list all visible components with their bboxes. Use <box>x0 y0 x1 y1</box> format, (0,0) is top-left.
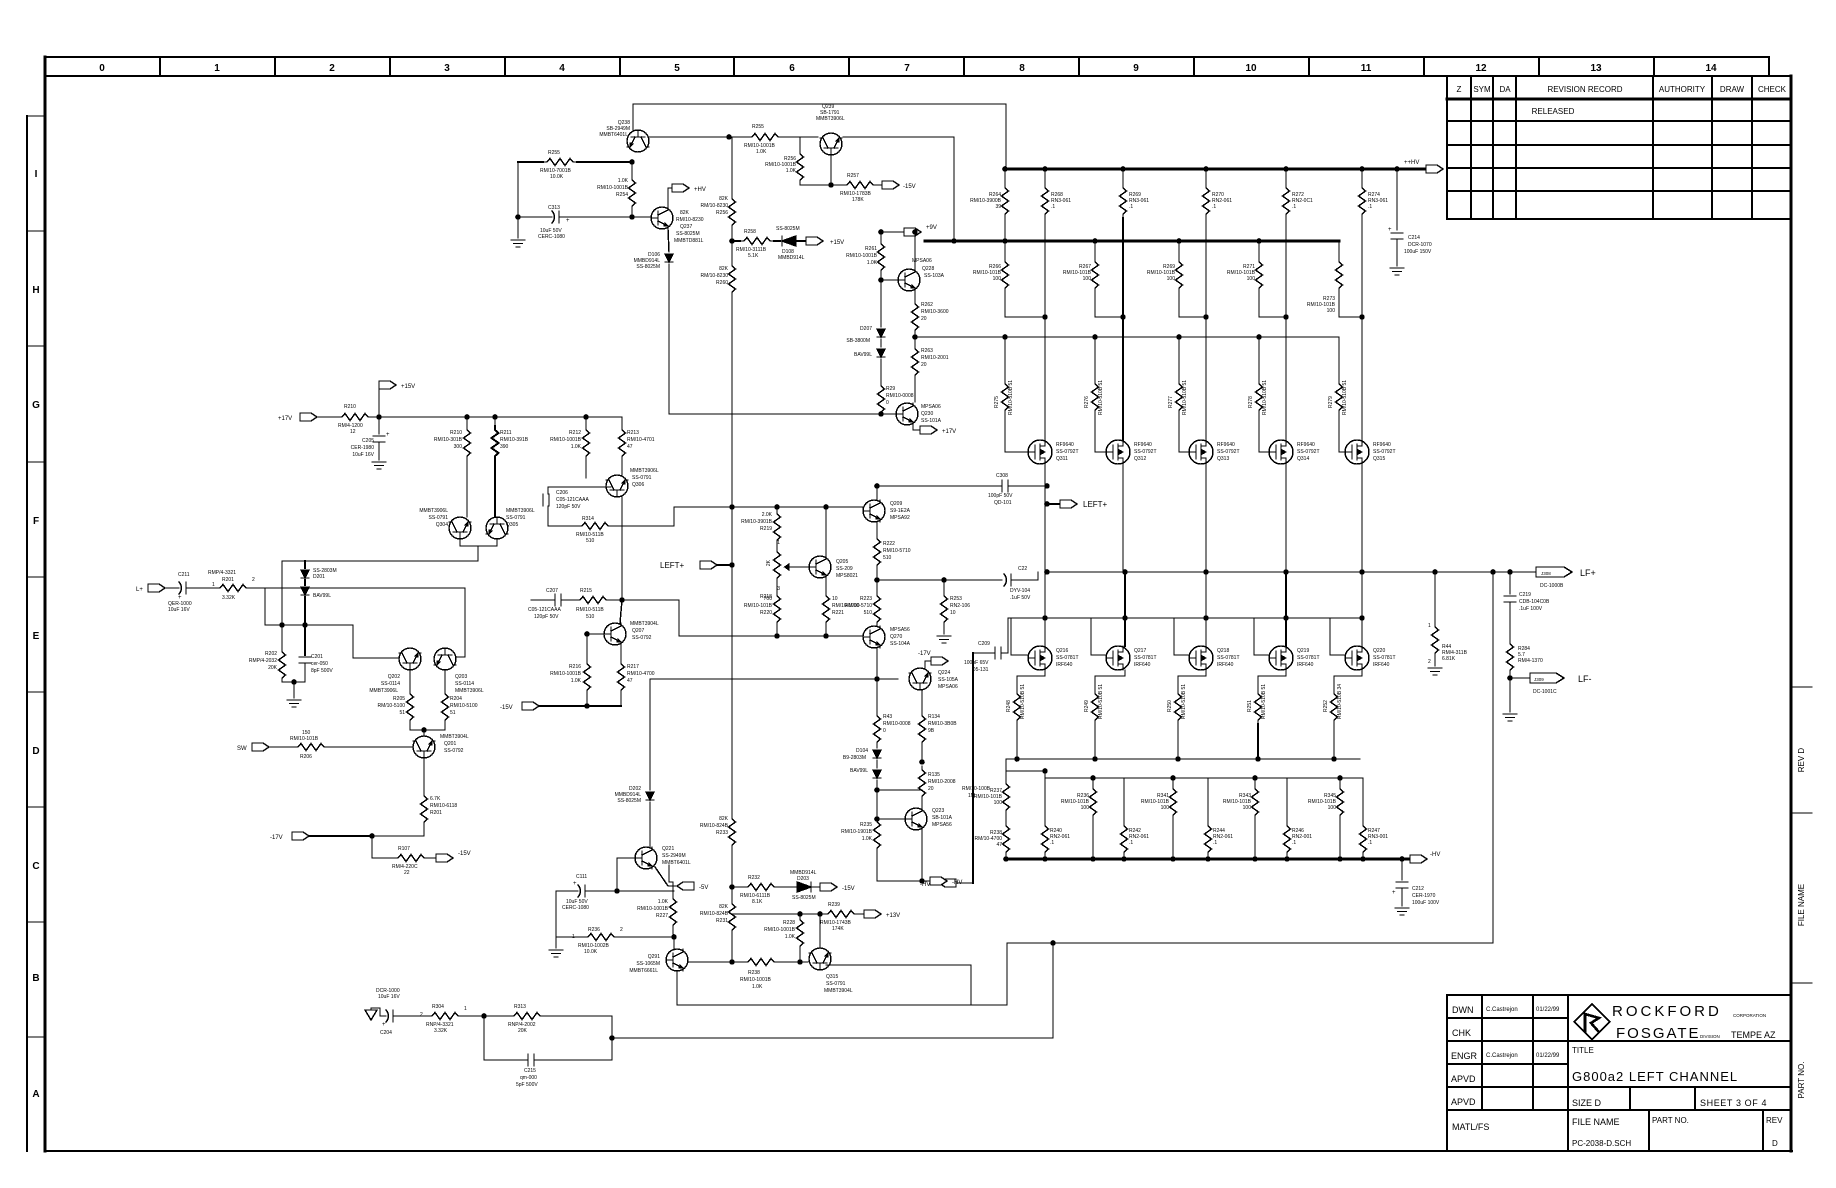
capacitor C207 + resistor R215 <box>531 599 555 601</box>
svg-text:R232: R232 <box>748 875 760 881</box>
svg-text:20: 20 <box>921 316 927 322</box>
connector +9V <box>881 231 904 233</box>
svg-text:RM/10-1001B: RM/10-1001B <box>550 437 582 443</box>
svg-text:+: + <box>386 432 390 438</box>
svg-text:01/22/99: 01/22/99 <box>1536 1007 1560 1013</box>
Rockford Fosgate logo <box>1574 1004 1609 1039</box>
svg-text:C.Castrejon: C.Castrejon <box>1486 1007 1518 1013</box>
svg-text:SB-101A: SB-101A <box>932 815 953 821</box>
svg-text:R257: R257 <box>847 173 859 179</box>
svg-text:RM/10-824B: RM/10-824B <box>700 823 729 829</box>
svg-text:C308: C308 <box>996 473 1008 479</box>
svg-text:3: 3 <box>444 63 450 74</box>
svg-text:RM/10-1901B: RM/10-1901B <box>841 829 873 835</box>
svg-text:IRF640: IRF640 <box>1297 662 1314 668</box>
resistor R255b column <box>731 137 733 195</box>
ground (C205) <box>372 462 386 469</box>
svg-text:LEFT+: LEFT+ <box>660 561 685 570</box>
svg-text:qm-000: qm-000 <box>520 1075 537 1081</box>
svg-text:RM/10-100B: RM/10-100B <box>962 786 991 792</box>
wire Q239 collector to mid bus <box>843 137 954 241</box>
svg-text:CERC-1080: CERC-1080 <box>562 905 589 911</box>
svg-text:C215: C215 <box>524 1068 536 1074</box>
svg-text:SIZE D: SIZE D <box>1572 1098 1602 1108</box>
svg-text:1: 1 <box>572 934 575 940</box>
svg-text:B: B <box>32 973 39 984</box>
svg-text:10.0K: 10.0K <box>550 174 564 180</box>
transistor Q209 <box>863 500 885 522</box>
wire gate bus bottom <box>1008 617 1341 619</box>
connector -5V (Q221) <box>655 867 677 886</box>
transistor Q201 <box>423 730 425 736</box>
resistor R212 <box>585 417 587 426</box>
resistor R134 <box>921 690 923 712</box>
wire Q315 collector up <box>819 932 821 948</box>
resistor R268 <box>1044 169 1046 184</box>
svg-text:I: I <box>35 169 38 180</box>
svg-text:0: 0 <box>99 63 105 74</box>
svg-text:ROCKFORD: ROCKFORD <box>1612 1003 1722 1020</box>
svg-text:2: 2 <box>1428 659 1431 665</box>
svg-text:12: 12 <box>1475 63 1487 74</box>
svg-text:10uF 16V: 10uF 16V <box>168 607 190 613</box>
svg-text:RM/10-3901B: RM/10-3901B <box>741 519 773 525</box>
capacitor C204 <box>371 1007 380 1009</box>
svg-text:Q291: Q291 <box>648 954 660 960</box>
svg-text:R254: R254 <box>616 192 628 198</box>
svg-text:MMBT6401L: MMBT6401L <box>599 132 628 138</box>
svg-text:MPSA92: MPSA92 <box>890 515 910 521</box>
svg-text:Q306: Q306 <box>632 482 644 488</box>
svg-text:RM/10-1001B: RM/10-1001B <box>764 927 796 933</box>
wire x881 down through D207 <box>880 280 882 327</box>
wire gate bus top <box>916 336 1339 338</box>
wire -HV bus bottom <box>1006 858 1410 861</box>
svg-text:AUTHORITY: AUTHORITY <box>1659 85 1706 94</box>
resistor R201b below Q201 <box>423 758 425 792</box>
svg-text:11: 11 <box>1361 63 1372 74</box>
ground (C313) <box>517 217 519 238</box>
wire Q221 base jog <box>617 858 635 891</box>
svg-text:cer-050: cer-050 <box>311 661 328 667</box>
svg-text:L+: L+ <box>136 587 143 593</box>
svg-text:SS-8025M: SS-8025M <box>676 231 700 237</box>
svg-text:R220: R220 <box>760 610 772 616</box>
svg-text:MPSA06: MPSA06 <box>921 404 941 410</box>
wire Q270 base feed <box>622 600 863 636</box>
transistor Q207 <box>604 623 626 645</box>
svg-text:82K: 82K <box>719 266 729 272</box>
svg-text:4: 4 <box>559 63 565 74</box>
svg-text:F: F <box>33 516 39 527</box>
svg-text:100: 100 <box>1327 308 1336 314</box>
svg-text:SS-0792T: SS-0792T <box>1056 449 1079 455</box>
svg-text:Q305: Q305 <box>506 522 518 528</box>
svg-text:G: G <box>32 400 40 411</box>
svg-text:SS-2949M: SS-2949M <box>662 853 686 859</box>
connector +15V <box>378 385 380 417</box>
svg-text:R212: R212 <box>569 430 581 436</box>
resistor R43 <box>876 690 878 712</box>
svg-text:H: H <box>32 285 39 296</box>
ground (input) <box>287 700 301 707</box>
transistor Q230 <box>896 403 918 425</box>
svg-text:R213: R213 <box>627 430 639 436</box>
diode D201 pair <box>304 561 306 568</box>
svg-text:+13V: +13V <box>886 913 900 919</box>
resistor R279 <box>1338 337 1340 380</box>
svg-text:1: 1 <box>214 63 220 74</box>
svg-text:RMP/4-2032: RMP/4-2032 <box>249 658 277 664</box>
resistor R210 <box>338 414 372 421</box>
svg-text:R253: R253 <box>950 596 962 602</box>
svg-text:20: 20 <box>928 786 934 792</box>
svg-text:FOSGATE: FOSGATE <box>1616 1025 1701 1042</box>
svg-text:1.0K: 1.0K <box>785 934 796 940</box>
svg-text:SS-0791: SS-0791 <box>429 515 449 521</box>
svg-text:SS-105A: SS-105A <box>938 677 959 683</box>
svg-text:C204: C204 <box>380 1030 392 1036</box>
wire y580 to C22 <box>877 579 1002 581</box>
svg-text:100: 100 <box>1243 805 1252 811</box>
svg-text:RM/10-5710: RM/10-5710 <box>883 548 911 554</box>
svg-text:1.0K: 1.0K <box>867 260 878 266</box>
wire output rail LF+ <box>1047 571 1510 573</box>
svg-text:Q311: Q311 <box>1056 456 1068 462</box>
wire top loop <box>633 104 1006 169</box>
resistor R313 <box>484 1015 510 1017</box>
svg-text:R255: R255 <box>752 124 764 130</box>
resistor R266 <box>1004 241 1006 258</box>
svg-text:J308: J308 <box>1541 571 1551 576</box>
svg-text:SS-103A: SS-103A <box>924 273 945 279</box>
resistor R233 <box>729 815 736 849</box>
wire FET source columns to output rail <box>1044 464 1046 572</box>
ground (R253) <box>937 636 951 643</box>
svg-text:RM/10-1001B: RM/10-1001B <box>740 977 772 983</box>
svg-text:.1uF 100V: .1uF 100V <box>1519 606 1543 612</box>
svg-text:D203: D203 <box>797 876 809 882</box>
svg-text:-17V: -17V <box>918 651 931 657</box>
svg-text:R279: R279 <box>1328 396 1334 408</box>
svg-text:J309: J309 <box>1534 677 1544 682</box>
svg-text:MMBT3906L: MMBT3906L <box>630 468 659 474</box>
svg-text:SHEET 3 OF 4: SHEET 3 OF 4 <box>1700 1098 1767 1108</box>
svg-text:SW: SW <box>237 746 247 752</box>
svg-text:R222: R222 <box>883 541 895 547</box>
svg-text:RM/10-510B 51: RM/10-510B 51 <box>1261 684 1267 719</box>
svg-text:120pF 50V: 120pF 50V <box>556 504 581 510</box>
svg-text:6: 6 <box>789 63 795 74</box>
svg-text:R278: R278 <box>1248 396 1254 408</box>
svg-text:RM/10-511B: RM/10-511B <box>576 607 604 613</box>
svg-text:SS-209: SS-209 <box>836 566 853 572</box>
wire y487 <box>548 486 611 488</box>
svg-text:.1: .1 <box>1368 840 1372 846</box>
svg-text:SS-0792T: SS-0792T <box>1373 449 1396 455</box>
svg-text:C05-121CAAA: C05-121CAAA <box>528 607 561 613</box>
wire Q239 emitter <box>830 155 832 185</box>
svg-text:9B: 9B <box>928 728 935 734</box>
svg-text:R239: R239 <box>828 902 840 908</box>
svg-text:CHK: CHK <box>1452 1028 1471 1038</box>
wire lattice top rails <box>1005 759 1007 780</box>
connector LEFT+ output <box>1044 501 1050 507</box>
svg-text:.1: .1 <box>1292 840 1296 846</box>
resistor R239 to +13V <box>824 911 858 918</box>
svg-text:-5V: -5V <box>699 885 708 891</box>
svg-text:20K: 20K <box>268 665 278 671</box>
resistor R254 <box>631 162 633 176</box>
svg-text:1.0K: 1.0K <box>756 149 767 155</box>
svg-text:CERC-1080: CERC-1080 <box>538 234 565 240</box>
connector +17V (Q230) <box>913 425 920 430</box>
transistor Q228 <box>881 279 898 281</box>
wire y414 <box>669 413 896 415</box>
svg-text:100pF 65V: 100pF 65V <box>964 660 989 666</box>
svg-text:.1: .1 <box>1129 840 1133 846</box>
svg-text:.1: .1 <box>1368 204 1372 210</box>
resistor R227 <box>668 865 670 882</box>
svg-text:6.81K: 6.81K <box>1442 656 1456 662</box>
capacitor C209 <box>973 652 995 654</box>
svg-text:R250: R250 <box>1167 700 1173 712</box>
resistor R277 <box>1178 337 1180 380</box>
resistor R259 <box>748 134 782 141</box>
svg-text:1: 1 <box>212 582 215 588</box>
svg-text:Q209: Q209 <box>890 501 902 507</box>
svg-text:DIVISION: DIVISION <box>1700 1034 1720 1039</box>
svg-text:1.0K: 1.0K <box>862 836 873 842</box>
transistor Q238 <box>627 130 649 152</box>
resistor R269 <box>1122 169 1124 184</box>
svg-text:.1: .1 <box>1050 840 1054 846</box>
resistor R202 <box>281 625 283 648</box>
resistor R238 <box>744 959 778 966</box>
svg-text:C205: C205 <box>362 438 374 444</box>
resistor R271 <box>1258 241 1260 258</box>
svg-text:8: 8 <box>1019 63 1025 74</box>
resistor R264 <box>1004 169 1006 184</box>
svg-text:R255: R255 <box>548 150 560 156</box>
svg-text:RM/10-8230: RM/10-8230 <box>676 217 704 223</box>
svg-text:C313: C313 <box>548 205 560 211</box>
wire / ground C219 leg <box>1509 678 1511 712</box>
svg-text:R107: R107 <box>398 846 410 852</box>
svg-text:RM/10-301B: RM/10-301B <box>434 437 463 443</box>
svg-text:Q220: Q220 <box>1373 648 1385 654</box>
wire Q291 emitter row <box>688 961 744 963</box>
svg-text:Q202: Q202 <box>388 674 400 680</box>
svg-text:RM/10-510B 51: RM/10-510B 51 <box>1098 684 1104 719</box>
svg-text:9: 9 <box>1133 63 1139 74</box>
svg-text:39: 39 <box>995 204 1001 210</box>
capacitor C313 <box>517 162 519 217</box>
svg-text:FILE NAME: FILE NAME <box>1797 884 1806 926</box>
transistor Q217 with gate jog <box>1122 615 1128 621</box>
svg-text:SS-0792T: SS-0792T <box>1217 449 1240 455</box>
resistor R276 <box>1094 337 1096 380</box>
resistor R242 <box>1123 778 1125 822</box>
resistor R210b <box>466 417 468 426</box>
svg-text:RF9640: RF9640 <box>1297 442 1315 448</box>
capacitor C201 <box>304 625 306 655</box>
resistor R211 <box>494 417 496 426</box>
resistor R240 <box>1042 822 1049 856</box>
svg-text:+17V: +17V <box>942 429 956 435</box>
svg-text:510: 510 <box>864 610 873 616</box>
svg-text:REV: REV <box>1766 1116 1783 1125</box>
capacitor C308 <box>877 485 1002 487</box>
resistor R257 <box>843 182 877 189</box>
svg-text:47: 47 <box>627 444 633 450</box>
transistor Q313 <box>1189 440 1213 464</box>
capacitor C211 <box>179 582 186 594</box>
svg-text:DC-1000B: DC-1000B <box>1540 583 1564 589</box>
svg-text:20K: 20K <box>518 1028 528 1034</box>
capacitor C206 <box>543 494 549 506</box>
svg-text:510: 510 <box>883 555 892 561</box>
svg-text:RM/10-5100: RM/10-5100 <box>450 703 478 709</box>
svg-text:QD-101: QD-101 <box>994 500 1012 506</box>
svg-text:Q237: Q237 <box>680 224 692 230</box>
svg-text:DCR-1000: DCR-1000 <box>376 988 400 994</box>
svg-text:RM/10-3B0B: RM/10-3B0B <box>928 721 957 727</box>
svg-text:390: 390 <box>500 444 509 450</box>
svg-text:1.0K: 1.0K <box>752 984 763 990</box>
svg-text:RM/4-1370: RM/4-1370 <box>1518 658 1543 664</box>
svg-text:C: C <box>32 861 39 872</box>
svg-text:1: 1 <box>464 1006 467 1012</box>
transistor Q315 <box>1345 440 1369 464</box>
svg-text:0: 0 <box>886 400 889 406</box>
resistor R213 <box>621 417 623 426</box>
svg-text:MMBT3904L: MMBT3904L <box>824 988 853 994</box>
ground (R236) <box>555 937 557 948</box>
svg-text:+: + <box>1392 890 1396 896</box>
svg-text:300: 300 <box>454 444 463 450</box>
svg-text:-15V: -15V <box>458 851 471 857</box>
diode D202 <box>646 792 654 800</box>
svg-text:SS-0781T: SS-0781T <box>1373 655 1396 661</box>
svg-text:22: 22 <box>404 870 410 876</box>
svg-text:SS-0792T: SS-0792T <box>1134 449 1157 455</box>
svg-text:D201: D201 <box>313 574 325 580</box>
svg-text:178K: 178K <box>852 197 864 203</box>
wire Q205 collector up <box>825 507 827 556</box>
svg-text:SS-0792: SS-0792 <box>444 748 464 754</box>
svg-text:R206: R206 <box>300 754 312 760</box>
svg-text:REV D: REV D <box>1797 748 1806 773</box>
svg-text:100: 100 <box>1083 276 1092 282</box>
svg-text:Q314: Q314 <box>1297 456 1309 462</box>
resistor R29 <box>878 382 885 416</box>
svg-text:MPSA06: MPSA06 <box>938 684 958 690</box>
resistor R223 <box>876 580 878 592</box>
svg-text:C206: C206 <box>556 490 568 496</box>
svg-text:S9-1E2A: S9-1E2A <box>890 508 911 514</box>
svg-text:+: + <box>573 881 577 887</box>
svg-text:CER-1980: CER-1980 <box>351 445 375 451</box>
svg-text:MMBT3906L: MMBT3906L <box>816 116 845 122</box>
svg-text:CDB-104C0B: CDB-104C0B <box>1519 599 1550 605</box>
svg-text:R204: R204 <box>450 696 462 702</box>
svg-text:Q312: Q312 <box>1134 456 1146 462</box>
svg-text:R211: R211 <box>500 430 512 436</box>
svg-text:+: + <box>382 1022 386 1028</box>
resistor R256 <box>799 137 801 150</box>
left ruler band <box>26 116 28 1151</box>
resistor R219 <box>776 507 778 510</box>
svg-text:R134: R134 <box>928 714 940 720</box>
svg-text:Z: Z <box>1457 85 1462 94</box>
resistor R107 <box>371 836 373 858</box>
svg-text:FILE NAME: FILE NAME <box>1572 1117 1620 1127</box>
ground (C212) <box>1395 908 1409 915</box>
resistor R269b <box>1178 241 1180 258</box>
svg-text:IRF640: IRF640 <box>1134 662 1151 668</box>
diode D104 pair <box>873 750 881 758</box>
wire input top <box>282 560 478 562</box>
svg-text:+9V: +9V <box>926 225 937 231</box>
resistor R251 <box>1258 670 1286 690</box>
svg-text:R276: R276 <box>1084 396 1090 408</box>
svg-text:SS-8025M: SS-8025M <box>617 798 641 804</box>
wire to Q202 base <box>353 625 399 658</box>
svg-text:RM/10-5710: RM/10-5710 <box>844 603 872 609</box>
svg-text:C212: C212 <box>1412 886 1424 892</box>
svg-text:13: 13 <box>1590 63 1602 74</box>
svg-text:IRF640: IRF640 <box>1217 662 1234 668</box>
resistor R237 <box>1003 780 1010 814</box>
svg-text:MMBT3906L: MMBT3906L <box>419 508 448 514</box>
svg-text:APVD: APVD <box>1451 1097 1476 1107</box>
svg-text:120pF 50V: 120pF 50V <box>534 614 559 620</box>
svg-text:D: D <box>1772 1139 1778 1148</box>
svg-text:R221: R221 <box>832 610 844 616</box>
svg-text:RM/10-1001B: RM/10-1001B <box>597 185 629 191</box>
svg-text:82K: 82K <box>719 196 729 202</box>
svg-text:D207: D207 <box>860 326 872 332</box>
resistor R220 <box>776 582 778 592</box>
svg-text:C.Castrejon: C.Castrejon <box>1486 1053 1518 1059</box>
svg-text:SS-0791: SS-0791 <box>506 515 526 521</box>
resistor R255 thick input <box>518 161 543 163</box>
connector -15V (R257) <box>882 181 899 189</box>
svg-text:5pF 500V: 5pF 500V <box>516 1082 538 1088</box>
svg-text:2: 2 <box>252 577 255 583</box>
svg-text:100uF 150V: 100uF 150V <box>1404 249 1432 255</box>
svg-text:+HV: +HV <box>694 187 706 193</box>
capacitor C111 <box>556 890 578 892</box>
svg-text:RM/10-510B 51: RM/10-510B 51 <box>1098 380 1104 415</box>
svg-text:2.0K: 2.0K <box>762 512 773 518</box>
connector J308 LF+ <box>1510 571 1536 573</box>
transistor Q205 <box>809 556 831 578</box>
svg-text:Q313: Q313 <box>1217 456 1229 462</box>
transistor Q203 <box>434 648 456 670</box>
wire to Q203 base <box>456 588 465 657</box>
border frame bottom <box>45 1150 1792 1152</box>
transistor Q311 <box>1028 440 1052 464</box>
svg-text:RMP/4-3321: RMP/4-3321 <box>208 570 236 576</box>
wire Q207 legs <box>620 600 622 623</box>
transistor Q305 <box>486 517 508 539</box>
svg-text:+: + <box>566 218 570 224</box>
earth triangle <box>365 1010 377 1020</box>
wire y730 <box>410 729 445 731</box>
wire diff pair emitters <box>460 539 497 546</box>
